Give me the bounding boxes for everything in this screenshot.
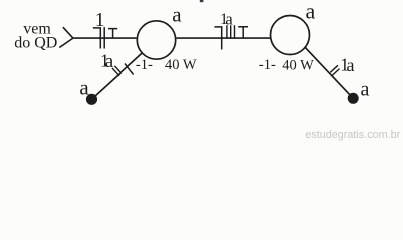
switch leg S1: lamp 1 to switch a bbox=[92, 53, 142, 99]
conduit marks group 1: neutral tick N1 bbox=[93, 28, 101, 49]
conduit marks group 2: neutral tick N2 bbox=[214, 27, 221, 50]
svg-text:40 W: 40 W bbox=[165, 57, 197, 73]
svg-text:a: a bbox=[361, 79, 370, 101]
svg-text:40 W: 40 W bbox=[282, 57, 314, 73]
top edge cut-off mark bbox=[200, 0, 204, 2]
chevron arrow from distribution board bbox=[59, 27, 73, 47]
switch dot a (right) bbox=[348, 93, 359, 104]
svg-text:a: a bbox=[347, 55, 355, 75]
lamp 1 circle bbox=[137, 21, 175, 59]
wire W1: feeder to lamp 1 bbox=[73, 37, 137, 39]
switch leg S2 conductor tick bbox=[332, 69, 340, 76]
svg-text:estudegratis.com.br: estudegratis.com.br bbox=[305, 129, 400, 141]
conduit marks group 2: return strokes bbox=[227, 25, 235, 39]
conduit marks group 1: return tick T1 bbox=[108, 29, 117, 39]
svg-text:-1-: -1- bbox=[136, 57, 153, 73]
switch leg S2 conductor tick bbox=[330, 65, 338, 72]
switch leg S1 conductor tick bbox=[112, 68, 119, 76]
svg-text:a: a bbox=[79, 76, 89, 100]
switch dot a (left) bbox=[86, 94, 97, 105]
svg-text:a: a bbox=[172, 3, 182, 27]
svg-text:a: a bbox=[105, 51, 114, 72]
switch leg S1 conductor tick bbox=[114, 66, 121, 74]
svg-text:a: a bbox=[306, 0, 316, 23]
wire W2: lamp 1 to lamp 2 bbox=[176, 37, 270, 39]
switch leg S2: lamp 2 to switch a bbox=[305, 47, 354, 99]
lamp 2 circle bbox=[271, 16, 310, 55]
svg-text:do QD: do QD bbox=[14, 34, 57, 51]
conduit marks group 2: return tick T2 bbox=[238, 27, 248, 39]
switch leg S1 long tick bbox=[125, 64, 134, 75]
svg-text:-1-: -1- bbox=[259, 57, 276, 73]
conduit marks group 1: phase tick F1 bbox=[103, 27, 105, 48]
